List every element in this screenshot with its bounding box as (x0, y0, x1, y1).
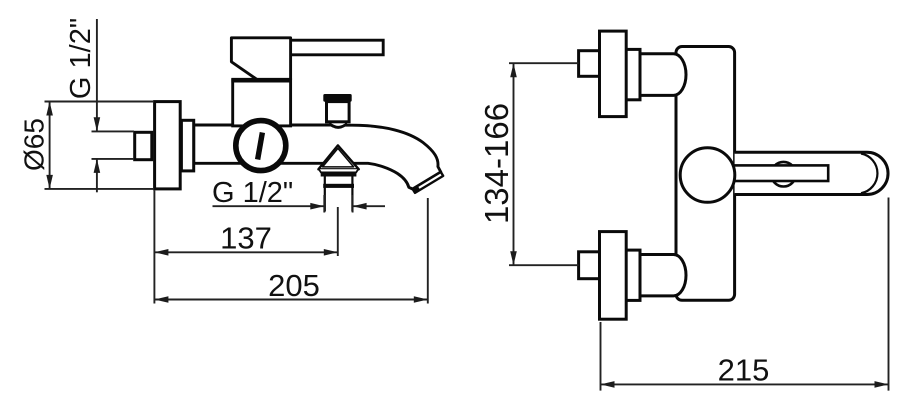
svg-text:G 1/2": G 1/2" (212, 177, 293, 209)
svg-text:215: 215 (718, 352, 770, 387)
bottom step (626, 250, 640, 300)
top step (626, 49, 640, 99)
137 right (324, 249, 338, 256)
svg-text:G 1/2": G 1/2" (65, 18, 97, 99)
top connector (579, 51, 600, 77)
137 dim line (154, 251, 337, 253)
dial slash (255, 132, 265, 160)
134-166 leaders (509, 62, 579, 64)
collar trapezoid (319, 169, 358, 172)
O65 down (46, 175, 53, 189)
joint ball circle (680, 148, 735, 203)
137 left (154, 249, 168, 256)
O65 dimension line (49, 102, 51, 189)
aerator band at spout tip (413, 172, 444, 193)
205 dim line (154, 299, 427, 301)
215 extensions (600, 322, 602, 391)
handle lever arm (290, 40, 384, 55)
collar band 1 (321, 172, 357, 176)
G1/2v down (94, 117, 101, 131)
right part (353, 205, 385, 207)
G1/2v up (94, 159, 101, 173)
faucet body and spout (194, 125, 441, 189)
G 1/2 vertical dim line lower tail (96, 159, 98, 192)
205 left (154, 296, 168, 303)
bottom connector (579, 252, 600, 279)
center extension line (337, 207, 339, 256)
G1/2h right-pointing (310, 203, 324, 210)
134-166 dim line (513, 63, 515, 265)
svg-text:134-166: 134-166 (478, 103, 515, 224)
O65 extension lines (45, 101, 154, 103)
G 1/2 horizontal dim (below spout) left part (213, 205, 325, 207)
diverter knob body (327, 102, 350, 122)
collar band 2 (323, 184, 354, 188)
bottom flange (600, 232, 627, 320)
134-166 up (510, 63, 517, 77)
205 right (414, 296, 428, 303)
205 right extension (427, 198, 429, 304)
inlet pipe stub G 1/2 (135, 132, 152, 159)
134-166 down (510, 251, 517, 265)
lever shaft (707, 165, 828, 181)
top flange (600, 31, 627, 117)
temperature dial circle (236, 121, 286, 171)
lever cap inner arc (861, 154, 877, 194)
215 right (875, 381, 889, 388)
G 1/2 vertical extension lines (92, 130, 135, 132)
left long extension (153, 191, 155, 304)
screw circle (771, 162, 796, 187)
wall plate (155, 102, 181, 189)
pipe below (324, 177, 326, 212)
aerator dark detail (413, 186, 421, 193)
bottom mounting pipe with round cap (640, 255, 686, 296)
svg-text:205: 205 (268, 268, 320, 303)
svg-text:Ø65: Ø65 (19, 118, 50, 171)
bath connector triangle (318, 145, 358, 169)
svg-text:137: 137 (220, 221, 272, 256)
215 left (601, 381, 615, 388)
cartridge housing (233, 80, 291, 126)
215 dim line (601, 383, 889, 385)
handle body (231, 38, 290, 80)
wall flange (small, behind plate) (181, 120, 193, 171)
arrowheads left view (46, 102, 428, 303)
housing/handle junction thick line (231, 78, 290, 83)
pipe edge extensions (323, 195, 325, 213)
lever bar (735, 152, 888, 194)
O65 up (46, 102, 53, 116)
diverter neck (329, 122, 331, 126)
G1/2h left-pointing (353, 203, 367, 210)
top mounting pipe with round cap (640, 54, 686, 96)
G 1/2 vertical dim line upper tail (96, 19, 98, 131)
diverter knob cap (323, 94, 351, 102)
main body column (676, 47, 735, 301)
triangle inner lines (323, 148, 354, 167)
